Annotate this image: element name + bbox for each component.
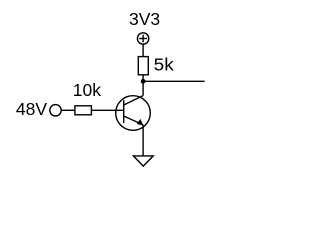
- wire resistor R2 to base: [91, 109, 123, 111]
- wire emitter to ground: [142, 125, 144, 156]
- transistor Q1 NPN: [116, 96, 151, 131]
- wire 3V3 terminal to resistor R1: [142, 44, 144, 56]
- terminal 48V: [50, 105, 61, 116]
- wire output net: [143, 80, 205, 82]
- power terminal 3V3: [137, 33, 148, 44]
- svg-text:10k: 10k: [73, 80, 101, 100]
- resistor R2 10k: [75, 106, 92, 115]
- wire resistor R1 to collector: [142, 75, 144, 96]
- resistor R1 5k: [138, 57, 148, 75]
- ground: [133, 156, 153, 166]
- svg-text:3V3: 3V3: [129, 9, 160, 29]
- junction node collector: [141, 79, 146, 84]
- wire 48V terminal to resistor R2: [61, 109, 75, 111]
- svg-text:48V: 48V: [16, 99, 47, 119]
- svg-text:5k: 5k: [154, 54, 174, 74]
